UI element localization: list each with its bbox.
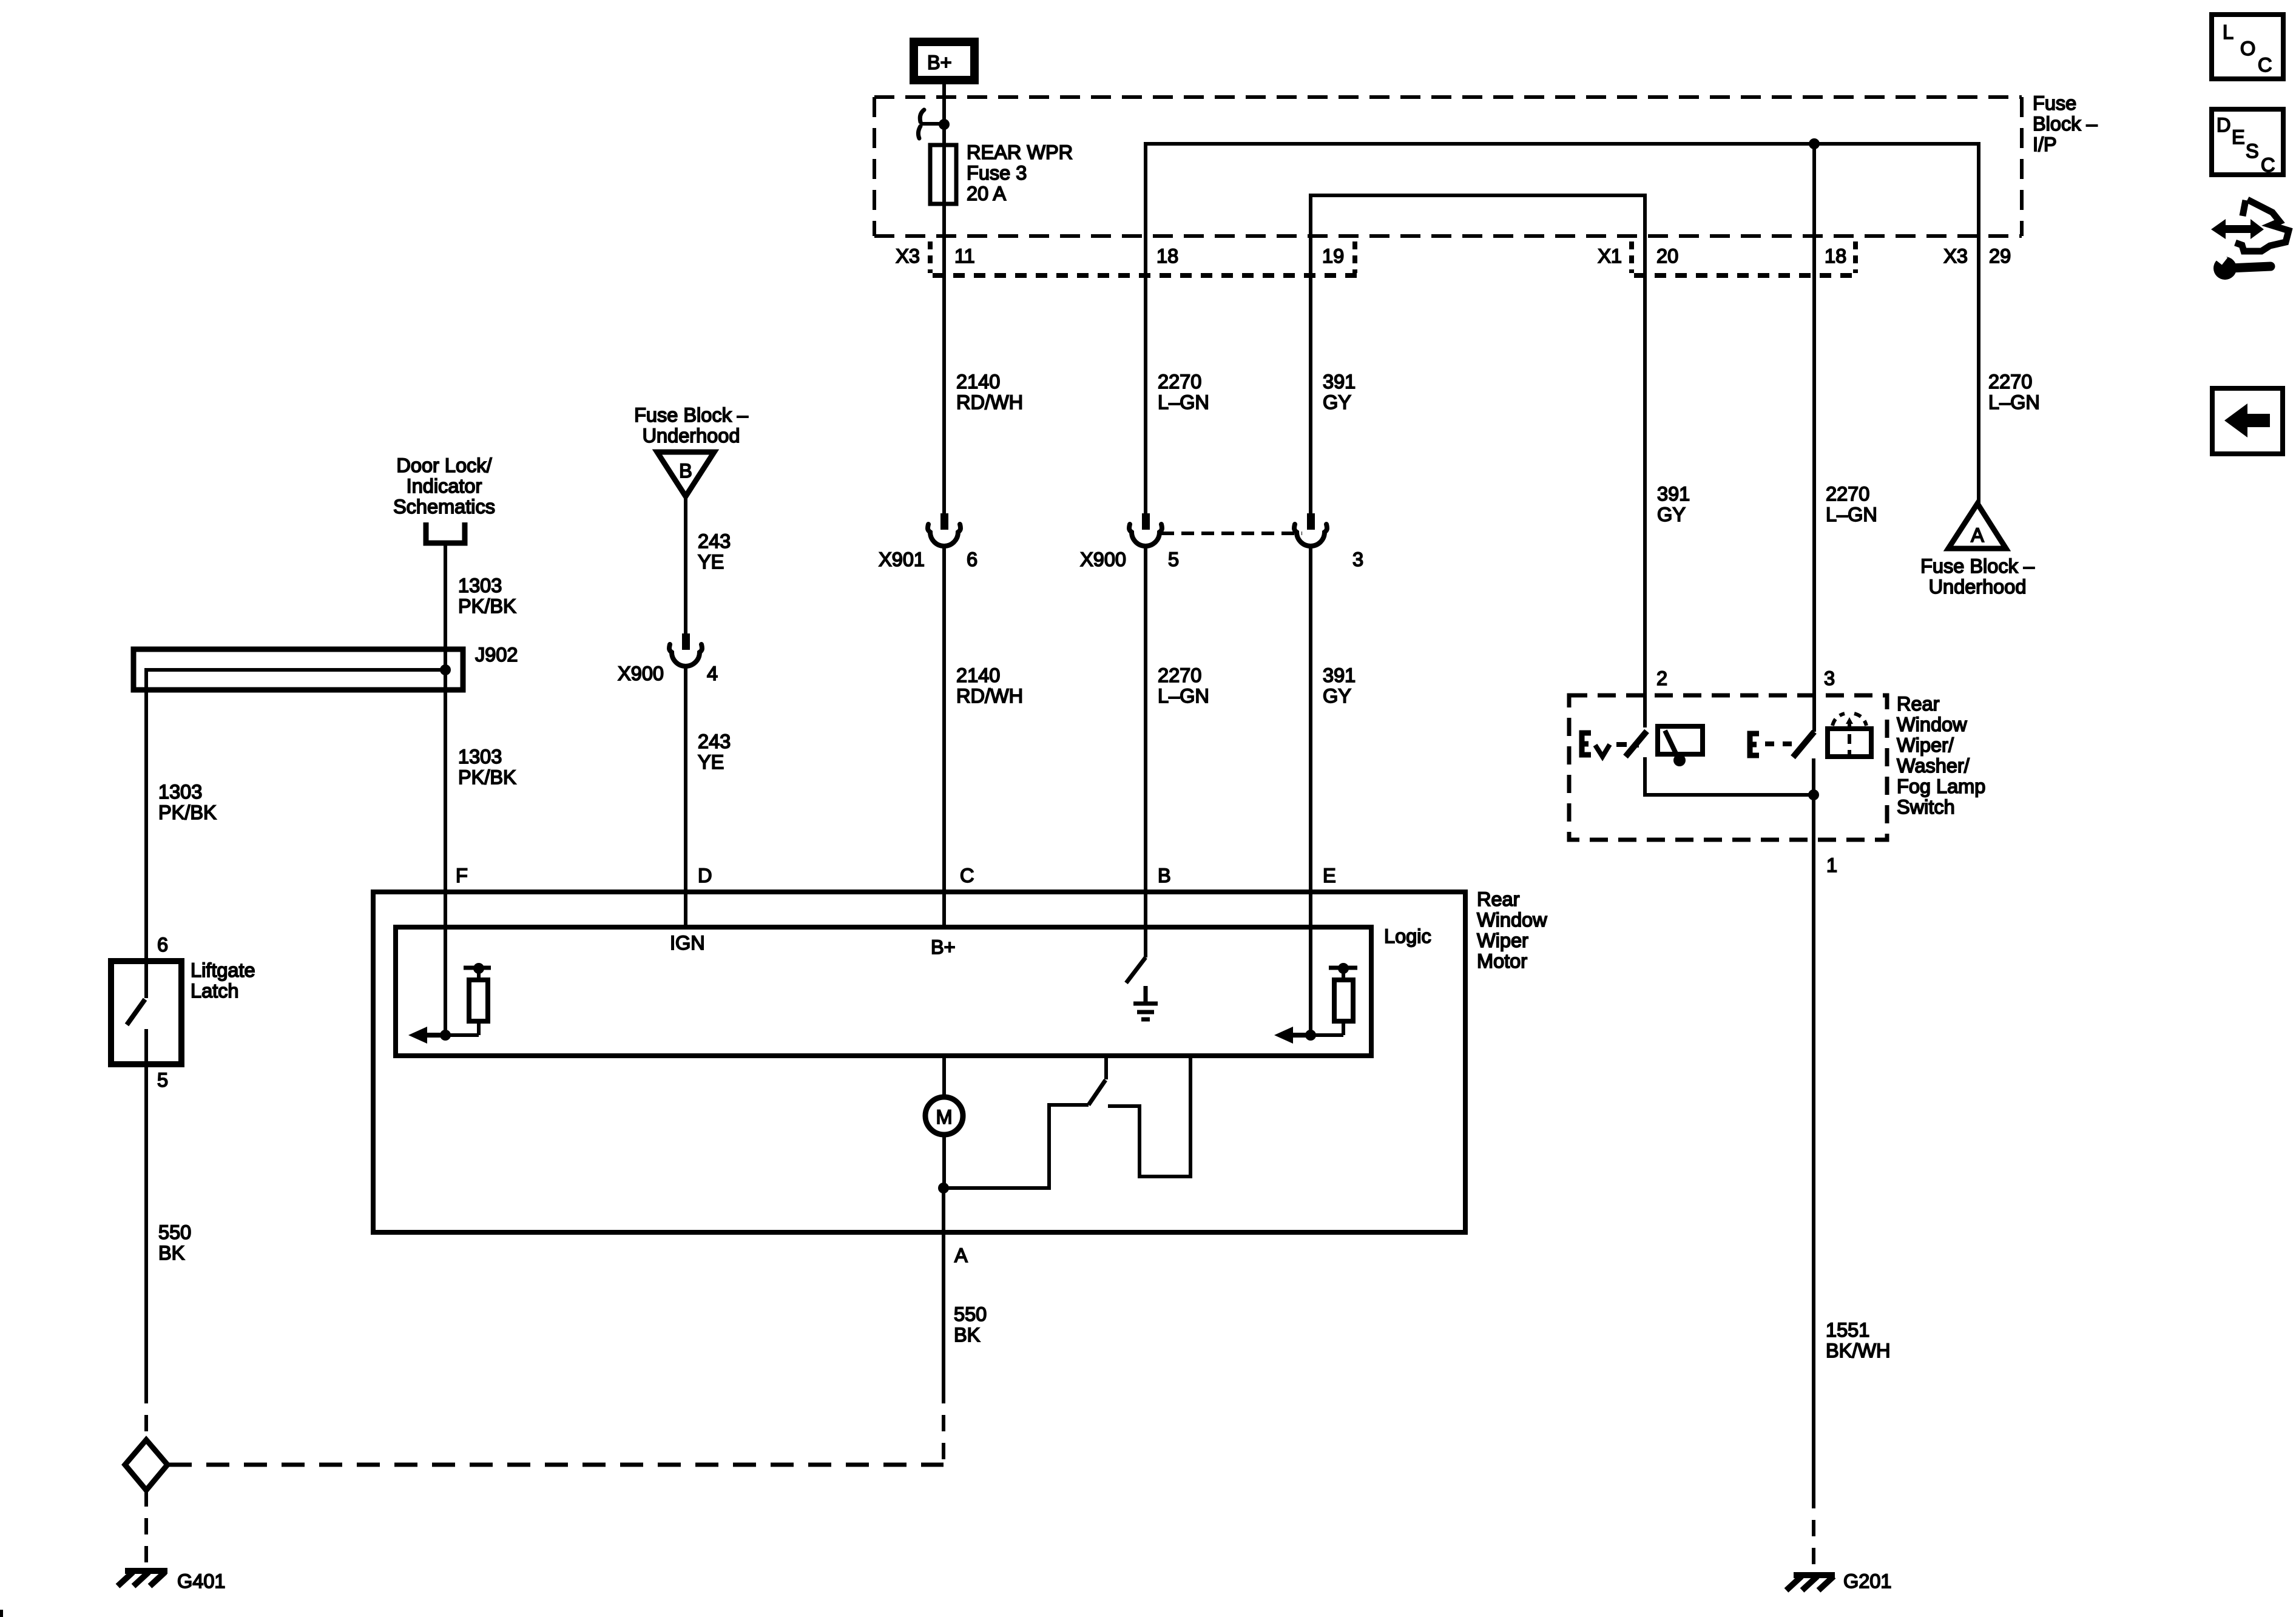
splice diamond [125, 1440, 167, 1490]
svg-text:Latch: Latch [191, 980, 239, 1002]
svg-text:1551: 1551 [1826, 1319, 1869, 1341]
svg-text:YE: YE [698, 551, 724, 573]
svg-text:2270: 2270 [1988, 371, 2032, 393]
svg-text:3: 3 [1824, 667, 1835, 689]
svg-text:Door Lock/: Door Lock/ [396, 454, 492, 476]
svg-text:RD/WH: RD/WH [956, 685, 1023, 707]
svg-text:REAR WPR: REAR WPR [967, 141, 1073, 163]
svg-text:BK: BK [954, 1324, 981, 1346]
park switch blade [1089, 1080, 1106, 1105]
dashed A wire [942, 1387, 945, 1465]
left arrow out [408, 1027, 427, 1044]
svg-text:3: 3 [1352, 549, 1363, 570]
svg-text:20: 20 [1656, 245, 1678, 267]
svg-text:BK/WH: BK/WH [1826, 1340, 1891, 1362]
pin F wire into logic [444, 892, 447, 1035]
svg-text:Underhood: Underhood [1929, 576, 2027, 598]
svg-text:Switch: Switch [1897, 796, 1955, 818]
bus line 2 (391 GY net) [1311, 195, 1645, 727]
page corner mark [0, 1610, 3, 1617]
svg-text:O: O [2240, 38, 2255, 59]
svg-text:PK/BK: PK/BK [158, 802, 217, 823]
DESC icon box [2212, 109, 2283, 175]
pin C wire logic to motor [942, 1056, 946, 1098]
wire pin2 lower and bottom link [1645, 757, 1814, 795]
svg-text:550: 550 [158, 1221, 191, 1243]
svg-text:L: L [2223, 21, 2234, 43]
svg-text:Fuse Block –: Fuse Block – [634, 404, 749, 426]
svg-text:5: 5 [1168, 549, 1179, 570]
connector X900-3 [1307, 513, 1315, 530]
junction dot motor [938, 1183, 949, 1193]
wire pin3 to pin1 / G201 [1812, 758, 1815, 1492]
fuse REAR WPR Fuse 3 20A [930, 145, 956, 204]
svg-text:Washer/: Washer/ [1897, 755, 1970, 777]
svg-text:2270: 2270 [1826, 483, 1869, 505]
triangle B [657, 452, 714, 496]
svg-text:5: 5 [157, 1069, 168, 1091]
junction dot on B+ feed [939, 119, 950, 130]
svg-text:S: S [2246, 140, 2259, 162]
svg-text:Underhood: Underhood [643, 425, 740, 447]
connector X900-4 [682, 633, 690, 650]
triangle A fuse block underhood [1948, 504, 2006, 549]
switch wiper contact: E detent glyph [1582, 733, 1591, 755]
svg-text:391: 391 [1323, 664, 1356, 686]
svg-text:Indicator: Indicator [407, 475, 482, 497]
svg-text:2: 2 [1656, 667, 1667, 689]
svg-text:11: 11 [954, 245, 975, 267]
svg-text:Motor: Motor [1477, 950, 1527, 972]
junction dot E [1305, 1030, 1316, 1041]
svg-text:E: E [2232, 126, 2245, 148]
svg-text:2270: 2270 [1158, 371, 1201, 393]
wire latch to splice [144, 1064, 148, 1387]
svg-text:6: 6 [157, 934, 168, 956]
svg-text:B: B [679, 460, 692, 482]
svg-text:YE: YE [698, 751, 724, 773]
v detent [1595, 744, 1610, 757]
park switch second contact path [1108, 1056, 1190, 1176]
svg-text:1303: 1303 [458, 746, 502, 768]
wire bracket to J902 [444, 543, 447, 649]
svg-text:Fuse: Fuse [2033, 92, 2076, 114]
svg-text:Fog Lamp: Fog Lamp [1897, 775, 1985, 797]
svg-text:L–GN: L–GN [1988, 391, 2040, 413]
svg-text:L–GN: L–GN [1158, 391, 1209, 413]
fuse block I/P dashed box [874, 95, 2022, 99]
dashed wire to G201 [1812, 1492, 1815, 1571]
washer icon [1828, 729, 1871, 757]
J902 splice pack [133, 649, 463, 690]
svg-text:X901: X901 [879, 549, 925, 570]
wire triangle B to X900-4 [684, 496, 687, 635]
left resistor assembly [445, 1033, 479, 1037]
svg-text:Liftgate: Liftgate [191, 959, 255, 981]
svg-text:GY: GY [1657, 504, 1686, 525]
svg-text:F: F [456, 865, 468, 886]
park switch common path [944, 1105, 1089, 1188]
rear window wiper motor box [373, 892, 1465, 1232]
wiper switch blade [1626, 731, 1647, 757]
bus tap hook symbol [920, 110, 924, 122]
svg-text:E: E [1323, 865, 1336, 886]
rear window wiper washer fog lamp switch box [1569, 695, 1887, 840]
svg-text:2140: 2140 [956, 664, 1000, 686]
internal ground symbol [1133, 986, 1158, 1019]
svg-text:GY: GY [1323, 685, 1351, 707]
svg-text:29: 29 [1989, 245, 2011, 267]
wire X900-4 to pin D [684, 664, 687, 927]
wire through J902 [444, 649, 447, 892]
junction dot F [440, 1030, 451, 1041]
svg-text:X900: X900 [1080, 549, 1126, 570]
washer contact E glyph [1750, 734, 1759, 755]
wire B+ to fuse (pin 11 column) [942, 84, 946, 515]
svg-text:18: 18 [1825, 245, 1846, 267]
svg-text:J902: J902 [475, 644, 518, 666]
junction dot line1 x2990 [1809, 138, 1820, 149]
svg-text:1303: 1303 [458, 575, 502, 596]
svg-text:Window: Window [1897, 714, 1967, 735]
svg-text:X1: X1 [1598, 245, 1622, 267]
pin E wire into logic [1309, 892, 1312, 1035]
svg-text:G201: G201 [1843, 1570, 1892, 1592]
dashes to blade [1616, 742, 1627, 747]
svg-text:6: 6 [967, 549, 977, 570]
svg-text:GY: GY [1323, 391, 1351, 413]
B+ power feed box [914, 42, 974, 80]
right arrow out [1274, 1027, 1293, 1044]
svg-text:A: A [954, 1244, 968, 1266]
svg-text:18: 18 [1156, 245, 1178, 267]
svg-text:Block –: Block – [2033, 113, 2098, 135]
svg-text:19: 19 [1322, 245, 1344, 267]
svg-text:D: D [2217, 114, 2230, 136]
connector X901-6 [940, 513, 948, 530]
svg-text:I/P: I/P [2033, 133, 2057, 155]
LOC icon box [2212, 15, 2283, 79]
svg-text:G401: G401 [177, 1570, 226, 1592]
svg-text:550: 550 [954, 1303, 987, 1325]
dashed splice run [169, 1463, 944, 1467]
svg-text:Window: Window [1477, 909, 1547, 931]
diagnostic arrow wrench icon [2207, 200, 2289, 280]
ground G201 [1786, 1575, 1835, 1590]
svg-text:Wiper: Wiper [1477, 930, 1528, 951]
svg-text:4: 4 [707, 663, 718, 684]
svg-text:C: C [960, 865, 974, 886]
svg-text:1303: 1303 [158, 781, 202, 803]
logic box [396, 927, 1371, 1056]
svg-text:Rear: Rear [1897, 693, 1940, 715]
svg-text:L–GN: L–GN [1826, 504, 1877, 525]
svg-text:Fuse Block –: Fuse Block – [1920, 555, 2035, 577]
svg-text:Rear: Rear [1477, 888, 1520, 910]
svg-text:RD/WH: RD/WH [956, 391, 1023, 413]
washer switch blade [1793, 732, 1814, 757]
dashes to blade [1765, 741, 1774, 746]
svg-text:X3: X3 [896, 245, 920, 267]
svg-text:IGN: IGN [670, 932, 705, 954]
svg-text:B+: B+ [927, 52, 952, 73]
wire X900-3 to pin E [1309, 544, 1312, 1035]
junction dot switch bottom [1808, 789, 1819, 800]
motor M [925, 1097, 963, 1135]
svg-text:Logic: Logic [1384, 925, 1431, 947]
connector X900-5 [1142, 513, 1150, 530]
svg-text:C: C [2261, 154, 2275, 176]
junction dot J902 [440, 664, 451, 675]
svg-text:391: 391 [1657, 483, 1690, 505]
svg-text:B: B [1158, 865, 1171, 886]
svg-text:Schematics: Schematics [393, 496, 495, 518]
pin B wire, switch to ground inside logic [1144, 892, 1147, 957]
svg-text:L–GN: L–GN [1158, 685, 1209, 707]
svg-text:Wiper/: Wiper/ [1897, 734, 1954, 756]
right resistor assembly [1311, 1033, 1343, 1037]
dashed link X900 5-3 [1161, 532, 1302, 535]
svg-text:Fuse 3: Fuse 3 [967, 162, 1027, 184]
park switch stub contact [1104, 1056, 1108, 1079]
bus line 1 (2270 L-GN net) [1146, 144, 1979, 515]
wire X901 to pin C [942, 544, 946, 927]
svg-text:2140: 2140 [956, 371, 1000, 393]
svg-text:391: 391 [1323, 371, 1356, 393]
svg-text:1: 1 [1826, 854, 1837, 876]
svg-text:2270: 2270 [1158, 664, 1201, 686]
svg-text:PK/BK: PK/BK [458, 595, 516, 617]
back arrow icon box [2212, 388, 2283, 454]
continuation bracket [426, 522, 465, 543]
wire 18-2 to switch pin 3 [1812, 144, 1816, 732]
svg-text:A: A [1971, 524, 1984, 546]
svg-text:20 A: 20 A [967, 183, 1006, 204]
wiper icon [1658, 726, 1703, 754]
svg-text:M: M [936, 1106, 952, 1128]
svg-text:X3: X3 [1943, 245, 1968, 267]
svg-text:BK: BK [158, 1242, 185, 1264]
pin A wire [942, 1188, 945, 1387]
svg-text:243: 243 [698, 731, 731, 752]
wire X900-5 to pin B [1144, 544, 1147, 957]
splice branch inside J902 [146, 670, 445, 961]
ground G401 [118, 1571, 167, 1586]
svg-text:B+: B+ [931, 936, 956, 958]
svg-text:243: 243 [698, 530, 731, 552]
svg-text:D: D [698, 865, 712, 886]
svg-text:X900: X900 [618, 663, 664, 684]
svg-text:PK/BK: PK/BK [458, 766, 516, 788]
svg-text:C: C [2258, 54, 2272, 76]
